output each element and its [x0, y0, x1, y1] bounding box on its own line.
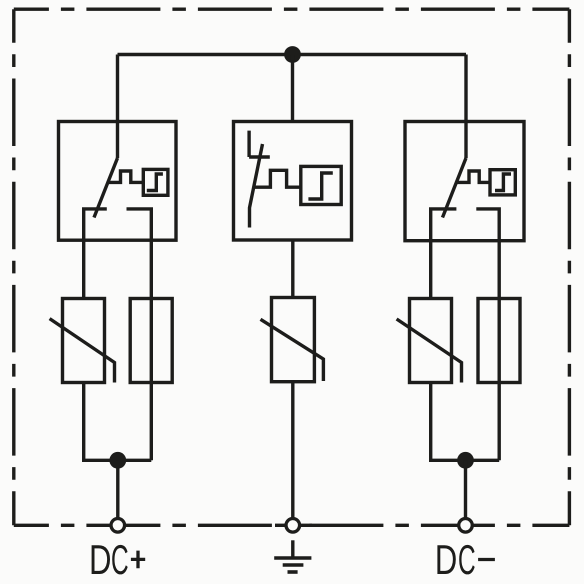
U1 step symbol — [147, 174, 163, 191]
wire drop to U2 — [291, 55, 294, 122]
varistor RV1 strike — [50, 319, 115, 383]
varistor RV2 strike — [261, 319, 324, 381]
U2 trigger pulse waveform — [254, 170, 301, 187]
U3 trigger pulse waveform — [457, 171, 490, 182]
terminal DC- — [459, 519, 473, 533]
U3 trigger device box — [490, 170, 515, 195]
U2 contact post — [249, 131, 270, 157]
wire U2 to RV2 — [291, 240, 294, 298]
U1 left contact — [84, 209, 107, 299]
U3 left contact — [431, 209, 457, 299]
terminal DC+ — [111, 519, 125, 533]
wire top bus — [118, 53, 467, 56]
label DC+ — [92, 545, 128, 575]
U1 switch wire entry — [116, 122, 119, 159]
wire drop to U3 — [464, 55, 467, 122]
disconnector U2 box — [234, 122, 352, 241]
junction dot DC+ — [109, 452, 126, 469]
minus sign of DC- — [478, 558, 495, 561]
fuse F1 — [130, 299, 172, 383]
wire to DC- terminal — [464, 460, 467, 517]
U3 right contact — [476, 209, 499, 460]
wire to earth terminal — [291, 382, 294, 517]
U2 step symbol — [308, 173, 332, 199]
U1 trigger device box — [143, 169, 168, 195]
varistor RV2 — [272, 298, 315, 382]
wire border stub right of earth terminal — [300, 524, 312, 527]
U3 switch blade — [443, 158, 467, 218]
wire RV3 bottom — [431, 383, 500, 461]
disconnector U3 box — [405, 122, 524, 241]
dash-dot insulation border frame bottom — [14, 524, 570, 527]
U3 step symbol — [495, 174, 511, 191]
varistor RV3 — [410, 299, 452, 383]
label DC- — [437, 545, 474, 575]
dash-dot insulation border frame left — [12, 9, 15, 525]
U1 right contact — [127, 209, 152, 460]
varistor RV3 strike — [397, 319, 462, 383]
varistor RV1 — [63, 299, 105, 383]
wire border stub left of earth terminal — [275, 524, 286, 527]
ground symbol — [291, 540, 294, 558]
dash-dot insulation border frame right — [568, 9, 571, 525]
terminal earth — [286, 519, 300, 533]
U3 switch wire entry — [464, 122, 467, 159]
wire RV1 bottom — [84, 383, 152, 461]
fuse F3 — [478, 299, 520, 383]
wire drop to U1 — [116, 55, 119, 122]
dash-dot insulation border frame top — [14, 7, 570, 10]
wire to DC+ terminal — [116, 460, 119, 517]
junction dot top center — [284, 46, 301, 63]
U1 switch blade — [94, 158, 118, 218]
disconnector U1 box — [59, 122, 177, 241]
junction dot DC- — [457, 452, 474, 469]
U1 trigger pulse waveform — [108, 171, 143, 182]
U2 trigger device box — [301, 166, 341, 204]
plus sign of DC+ — [131, 551, 145, 569]
U2 switch blade — [250, 144, 263, 228]
